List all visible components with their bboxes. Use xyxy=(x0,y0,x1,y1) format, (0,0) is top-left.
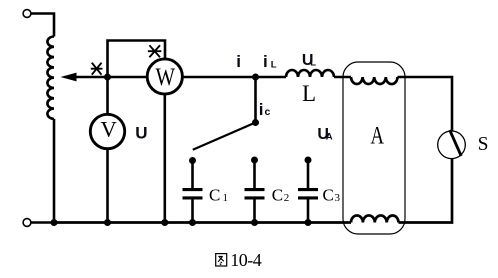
wire V bottom to bus xyxy=(106,149,109,223)
voltmeter V xyxy=(90,114,124,148)
wattmeter voltage-coil loop wire xyxy=(108,41,166,78)
wire to voltmeter xyxy=(106,77,109,114)
caption glyph tu (figure) xyxy=(216,254,227,266)
svg-text:U: U xyxy=(135,124,147,143)
capacitor C3 xyxy=(307,160,310,188)
inductor L xyxy=(286,70,334,77)
switch blade xyxy=(193,123,256,150)
switch contact 2 xyxy=(251,157,258,164)
svg-text:L: L xyxy=(310,57,316,68)
tap arrowhead xyxy=(61,73,77,82)
wire coil bottom to bottom bus xyxy=(53,119,56,223)
svg-text:A: A xyxy=(326,132,333,143)
svg-text:W: W xyxy=(155,64,175,91)
svg-text:3: 3 xyxy=(335,192,341,204)
junction bottom-left xyxy=(51,219,58,226)
svg-text:C: C xyxy=(209,185,220,204)
junction V bottom xyxy=(104,219,111,226)
junction node at tap xyxy=(104,74,111,81)
polarity mark * (wattmeter voltage coil) xyxy=(148,45,161,57)
capacitor C1 xyxy=(191,161,194,189)
bottom bus right of box xyxy=(399,159,453,223)
wire top-left to coil xyxy=(31,14,54,37)
svg-text:C: C xyxy=(272,185,283,204)
box top winding xyxy=(351,77,398,84)
source S diagonal xyxy=(450,130,462,156)
svg-text:A: A xyxy=(371,123,385,150)
wire inductor to box xyxy=(334,76,351,79)
svg-text:c: c xyxy=(265,106,271,118)
node i junction xyxy=(252,74,259,81)
svg-text:i: i xyxy=(236,52,241,71)
wire i_C branch xyxy=(254,77,257,123)
svg-text:L: L xyxy=(271,59,277,70)
capacitor C2 xyxy=(253,160,256,188)
svg-text:i: i xyxy=(263,52,268,71)
box bottom winding xyxy=(351,215,398,222)
junction W bottom xyxy=(161,219,168,226)
switch contact 3 xyxy=(305,157,312,164)
svg-text:L: L xyxy=(302,81,316,106)
arc-furnace box outline xyxy=(343,62,405,234)
wire W right xyxy=(182,76,286,79)
svg-text:V: V xyxy=(100,117,116,142)
tap arrow wire xyxy=(70,76,147,79)
svg-text:10-4: 10-4 xyxy=(230,250,261,270)
svg-text:1: 1 xyxy=(223,192,229,204)
wire W bottom to bus xyxy=(164,94,167,222)
wire bottom terminal xyxy=(31,221,54,224)
svg-text:i: i xyxy=(259,100,264,119)
wattmeter W xyxy=(147,59,182,94)
switch S1 pivot xyxy=(252,119,259,126)
switch contact 1 xyxy=(189,157,196,164)
svg-text:S: S xyxy=(478,134,489,155)
svg-text:C: C xyxy=(323,185,334,204)
bottom bus wire xyxy=(54,221,351,224)
source S circle xyxy=(438,131,466,159)
terminal top-left xyxy=(23,10,31,18)
svg-text:2: 2 xyxy=(284,192,290,204)
terminal bottom-left xyxy=(23,219,31,227)
polarity mark * (wattmeter current coil) xyxy=(91,63,103,75)
wire box to right corner xyxy=(398,77,453,131)
autotransformer coil T1 xyxy=(47,37,54,119)
